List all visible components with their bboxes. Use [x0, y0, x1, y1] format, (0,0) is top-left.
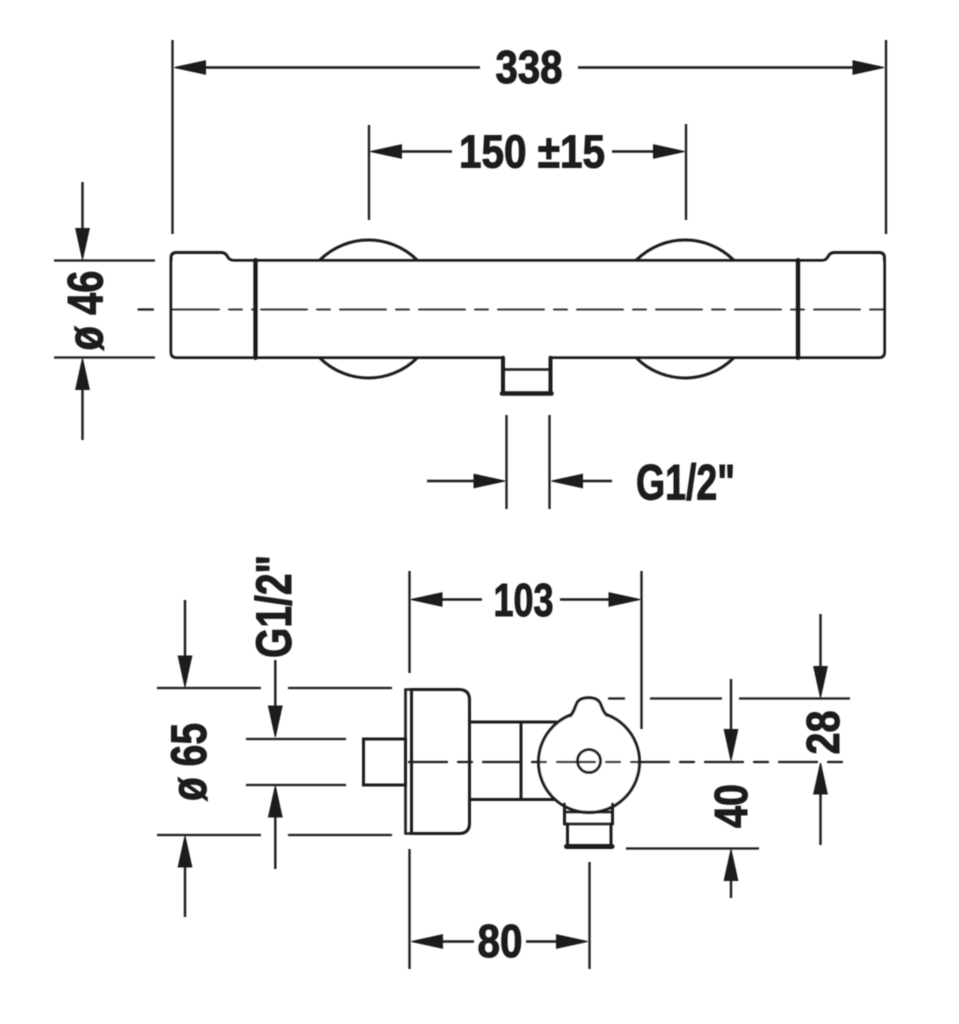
svg-text:ø 46: ø 46	[58, 271, 114, 351]
svg-text:80: 80	[478, 915, 523, 967]
svg-text:40: 40	[705, 784, 757, 828]
svg-text:150 ±15: 150 ±15	[459, 126, 605, 178]
svg-text:G1/2": G1/2"	[246, 555, 302, 658]
svg-text:338: 338	[496, 41, 563, 93]
svg-text:103: 103	[494, 574, 554, 626]
svg-text:28: 28	[797, 711, 849, 755]
svg-text:ø 65: ø 65	[161, 723, 217, 801]
svg-text:G1/2": G1/2"	[636, 455, 735, 511]
